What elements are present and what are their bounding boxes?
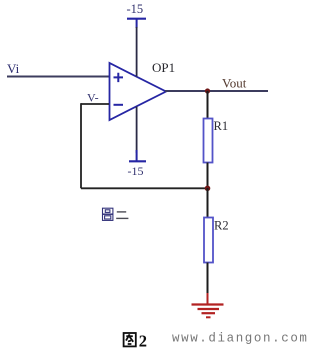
op-amp OP1 xyxy=(110,63,167,120)
wire op-amp bottom to -15 supply xyxy=(136,107,138,154)
ground xyxy=(192,293,224,317)
junction node A (output / R1) xyxy=(205,88,210,93)
resistor R1 xyxy=(204,119,213,163)
wire R1 to node B xyxy=(207,163,209,189)
svg-text:R2: R2 xyxy=(214,219,229,233)
junction node B (feedback / R2) xyxy=(205,186,211,192)
wire node B to R2 xyxy=(207,188,209,218)
wire R2 to ground xyxy=(207,263,209,297)
svg-text:2: 2 xyxy=(139,331,147,350)
wire feedback vertical xyxy=(80,103,82,188)
resistor R2 xyxy=(204,218,213,263)
wire node A to R1 xyxy=(207,91,209,119)
svg-text:OP1: OP1 xyxy=(152,60,175,75)
svg-text:www.diangon.com: www.diangon.com xyxy=(172,332,309,346)
caption 圖二 (figure two, drawn glyphs) xyxy=(103,208,129,220)
svg-text:-15: -15 xyxy=(127,2,144,16)
wire top supply to op-amp xyxy=(136,27,138,77)
svg-text:Vout: Vout xyxy=(222,76,247,91)
wire output Vout xyxy=(165,90,268,92)
wire V- input xyxy=(81,103,109,105)
caption 图2 (drawn glyph + numeral) xyxy=(124,331,147,350)
wire Vi input xyxy=(7,76,109,78)
power rail -15 (bottom) xyxy=(129,150,146,161)
power rail -15 (top) xyxy=(127,19,146,28)
svg-text:V-: V- xyxy=(87,91,99,105)
wire feedback horizontal xyxy=(81,187,208,189)
svg-text:R1: R1 xyxy=(214,119,229,133)
svg-text:-15: -15 xyxy=(128,164,144,178)
svg-text:Vi: Vi xyxy=(7,61,20,76)
